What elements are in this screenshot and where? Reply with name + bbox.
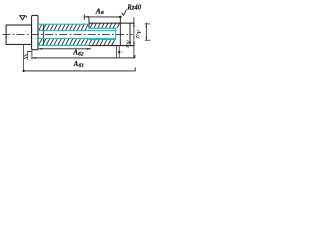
svg-text:Аб2: Аб2 <box>72 50 83 58</box>
cyan rod bottom <box>38 37 116 39</box>
top edge right section <box>89 22 135 24</box>
rotated label A_g1 <box>125 39 131 48</box>
cyan rod end face <box>115 28 117 40</box>
bottom edge right section <box>89 45 135 47</box>
dimension A_b2 <box>38 48 91 50</box>
vertical dimension line V1 <box>133 17 135 58</box>
cyan collar top <box>89 27 116 29</box>
right end face <box>129 23 131 45</box>
cyan part outlines <box>38 24 116 45</box>
rotated label A_g2 <box>134 29 142 39</box>
hatch right part top band <box>89 23 120 28</box>
head of fastener <box>6 25 32 44</box>
cyan sleeve top edge <box>38 23 89 25</box>
svg-text:Ав: Ав <box>95 6 104 16</box>
svg-text:Аг2: Аг2 <box>134 29 142 39</box>
dimension A_b1 <box>32 50 135 59</box>
hatch right part bottom band <box>89 40 115 46</box>
roughness symbol rotated on stem <box>24 51 32 60</box>
svg-text:г.: г. <box>121 49 123 53</box>
hatch sleeve left top band <box>38 25 89 31</box>
dimension A_v top <box>84 14 121 20</box>
dimension A (bottom overall) <box>22 67 135 72</box>
chain verticals below part right <box>117 46 121 58</box>
cyan sleeve bottom edge <box>38 44 89 46</box>
svg-text:Аг1: Аг1 <box>125 39 131 48</box>
svg-text:Аб1: Аб1 <box>73 61 84 69</box>
hole bottom / extension vertical <box>119 17 121 46</box>
vertical dimension line V2 <box>145 23 151 41</box>
extension stem from head bottom <box>23 45 25 71</box>
Rz40 roughness symbol <box>122 10 127 16</box>
interface vertical at step <box>88 18 90 29</box>
joint line in sleeve <box>43 24 45 45</box>
centerline <box>3 33 133 35</box>
hatch sleeve left bottom band <box>38 39 88 45</box>
cyan collar bottom <box>89 39 116 41</box>
svg-text:Rz40: Rz40 <box>126 5 142 12</box>
flange <box>32 15 38 49</box>
cyan rod top <box>38 30 116 32</box>
surface finish triangle symbol on head <box>19 16 27 20</box>
